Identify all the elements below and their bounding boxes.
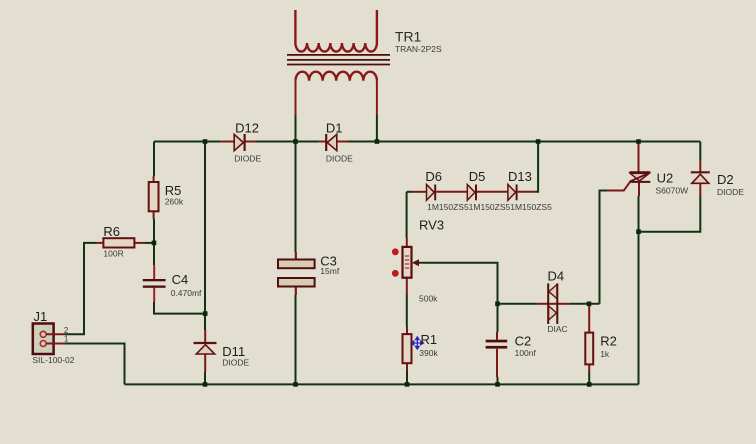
wire C3 branch upper <box>295 142 297 253</box>
junction top bus / D11 branch <box>203 139 208 144</box>
diode D1 <box>319 134 348 151</box>
triac U2 <box>607 172 650 190</box>
junction top bus / C3 branch <box>293 139 298 144</box>
svg-text:D4: D4 <box>548 269 565 284</box>
wire U2 bottom lead <box>638 182 640 196</box>
RV3 wiper arrow <box>412 259 419 266</box>
wire R2 to bottom bus <box>588 372 590 384</box>
diode D11 <box>194 330 217 372</box>
wire C4 bottom elbow <box>154 302 205 314</box>
wire transformer right lead down <box>376 115 378 142</box>
wire D13 elbow up to top bus <box>535 142 538 192</box>
diode D6 <box>412 185 436 201</box>
junction D4 / R2 / gate <box>587 302 592 307</box>
diac D4 <box>537 283 571 324</box>
junction top bus / D13 riser <box>536 139 541 144</box>
svg-text:15mf: 15mf <box>320 266 340 276</box>
RV3 terminal dot top <box>392 248 399 255</box>
capacitor C3 <box>278 252 315 295</box>
svg-text:R6: R6 <box>103 224 120 239</box>
svg-text:C4: C4 <box>172 272 189 287</box>
wire R6 right to junction <box>145 242 154 244</box>
wire J1 pin2 to R6 <box>65 243 96 334</box>
junction R6 / R5 line <box>152 241 157 246</box>
junction top bus / U2 lead <box>636 139 641 144</box>
wire D11 to bottom bus <box>204 372 206 384</box>
wire right riser to bottom bus <box>638 232 640 385</box>
svg-text:100nf: 100nf <box>515 348 537 358</box>
junction bottom bus / R1 <box>405 382 410 387</box>
wire D4 to R2 junction <box>570 303 600 305</box>
wire R1 to bottom bus <box>406 371 408 384</box>
potentiometer RV3 <box>403 238 412 295</box>
svg-text:1: 1 <box>64 335 69 344</box>
wire J1 pin1 to bottom bus <box>65 344 125 385</box>
wire D2 top elbow <box>699 142 701 161</box>
svg-text:RV3: RV3 <box>419 217 444 232</box>
svg-text:DIODE: DIODE <box>326 153 353 163</box>
wire RV3 to R1 <box>406 295 408 327</box>
resistor R1 <box>403 327 412 371</box>
svg-text:390k: 390k <box>419 348 438 358</box>
diode D5 <box>467 185 476 201</box>
svg-text:S6070W: S6070W <box>656 186 689 196</box>
wire top bus right <box>348 141 700 143</box>
wire U2 top lead <box>638 142 640 173</box>
svg-text:D2: D2 <box>717 172 734 187</box>
wire left vertical to R5 <box>153 142 155 177</box>
junction U2 / D2 return <box>636 229 641 234</box>
resistor R5 <box>149 176 159 219</box>
wire D6-D5 lead <box>436 191 467 193</box>
junction bottom bus / C2 <box>495 382 500 387</box>
svg-text:SIL-100-02: SIL-100-02 <box>32 355 74 365</box>
svg-text:0.470mf: 0.470mf <box>171 288 202 298</box>
wire R5 to R6 junction <box>153 219 155 265</box>
wire C2 branch <box>497 304 499 332</box>
diode D2 <box>691 160 710 196</box>
diode D13 <box>508 185 536 201</box>
svg-text:1M150ZS51M150ZS51M150ZS5: 1M150ZS51M150ZS51M150ZS5 <box>427 202 552 212</box>
svg-text:U2: U2 <box>657 170 674 185</box>
svg-text:R1: R1 <box>421 332 438 347</box>
resistor R2 <box>585 304 593 372</box>
junction wiper / C2 / D4 <box>495 302 500 307</box>
svg-text:DIODE: DIODE <box>222 358 249 368</box>
svg-text:1k: 1k <box>600 349 610 359</box>
wire C3 to bottom bus <box>295 295 297 384</box>
svg-text:DIODE: DIODE <box>234 153 261 163</box>
svg-text:J1: J1 <box>34 309 48 324</box>
wire bottom bus <box>125 383 639 385</box>
wire gate riser <box>600 191 608 304</box>
junction bottom bus / D11 <box>203 382 208 387</box>
svg-text:R2: R2 <box>600 334 617 349</box>
wire C2 to bottom bus <box>497 377 499 384</box>
junction bottom bus / R2 <box>587 382 592 387</box>
connector J1 <box>33 324 65 355</box>
wire D2 bottom return <box>639 196 701 232</box>
wire wiper junction to D4 <box>498 303 537 305</box>
junction bottom bus / C3 <box>293 382 298 387</box>
svg-text:D5: D5 <box>469 169 486 184</box>
svg-text:260k: 260k <box>165 196 184 206</box>
svg-text:TRAN-2P2S: TRAN-2P2S <box>395 44 442 54</box>
resistor R6 <box>96 238 145 247</box>
RV3 terminal dot bottom <box>392 270 399 277</box>
wire RV3 wiper to elbow <box>419 263 498 304</box>
wire D5-D13 lead <box>477 191 508 193</box>
svg-text:D1: D1 <box>326 121 343 136</box>
diode D12 <box>221 134 256 151</box>
wire U2 to junction <box>638 196 640 232</box>
svg-text:D13: D13 <box>508 169 532 184</box>
wire transformer left lead down <box>295 115 297 142</box>
svg-text:TR1: TR1 <box>395 28 422 44</box>
transformer TR1 <box>287 10 390 115</box>
wire top bus mid <box>256 141 319 143</box>
svg-text:500k: 500k <box>419 294 438 304</box>
svg-text:C2: C2 <box>515 334 532 349</box>
junction top bus / transformer right lead <box>375 139 380 144</box>
svg-text:D6: D6 <box>425 169 442 184</box>
origin marker (blue crosshair) <box>411 337 424 349</box>
svg-text:D12: D12 <box>235 121 259 136</box>
wire D6 row left elbow <box>407 191 412 193</box>
svg-text:DIODE: DIODE <box>717 187 744 197</box>
capacitor C2 <box>486 332 508 377</box>
wire top bus left <box>154 141 221 143</box>
wire RV3 top lead <box>406 192 408 238</box>
svg-text:DIAC: DIAC <box>547 324 567 334</box>
junction C4 / D11 line <box>203 311 208 316</box>
capacitor C4 <box>143 265 166 302</box>
wire D11 branch vertical <box>204 142 206 331</box>
svg-text:100R: 100R <box>103 248 123 258</box>
